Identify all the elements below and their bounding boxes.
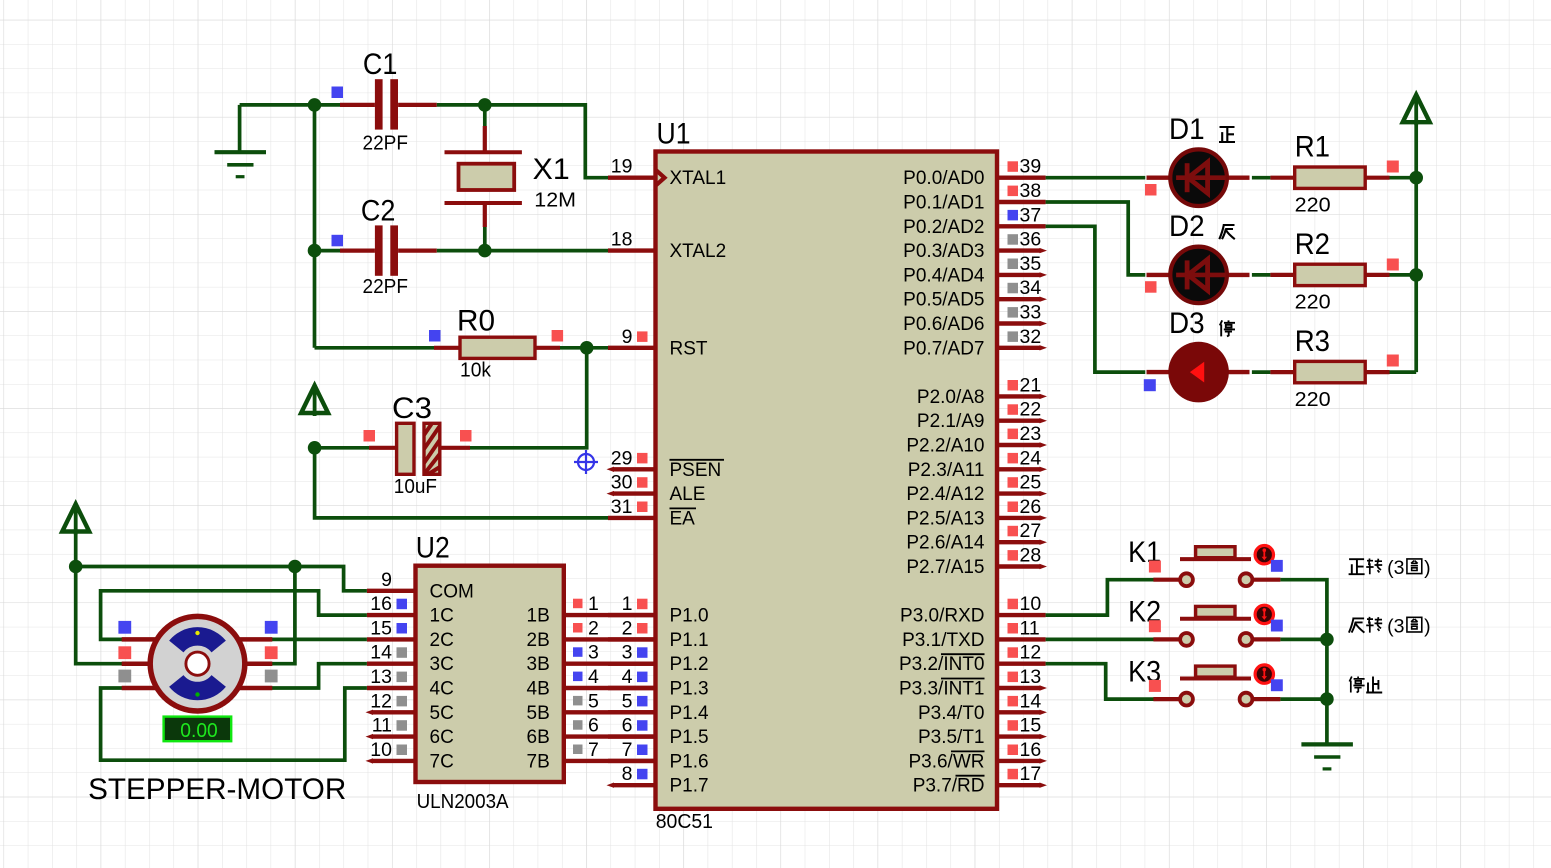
pin P3.5/T1 (15) [918, 715, 1047, 749]
pin 1B (1) of U2 [527, 593, 656, 627]
state square (R3 right) [1387, 355, 1399, 367]
pin P0.2/AD2 (37) [903, 204, 1045, 238]
wire R2 to +V rail [1390, 273, 1417, 277]
pin P1.6 (7) [608, 739, 709, 773]
svg-text:25: 25 [1020, 472, 1042, 494]
svg-text:P1.0: P1.0 [670, 606, 709, 627]
svg-text:35: 35 [1020, 253, 1042, 275]
svg-text:P0.6/AD6: P0.6/AD6 [903, 314, 984, 335]
pin P0.1/AD1 (38) [903, 180, 1045, 214]
pin 4B (4) of U2 [527, 666, 656, 700]
svg-text:5C: 5C [430, 703, 454, 724]
pin P0.6/AD6 (33) [903, 302, 1047, 336]
driver U2 body (ULN2003A) [416, 566, 564, 782]
svg-text:16: 16 [370, 593, 392, 615]
svg-text:220: 220 [1295, 389, 1331, 411]
svg-text:3: 3 [622, 642, 633, 664]
wire +V rail (LED) [1414, 122, 1418, 372]
svg-text:5: 5 [588, 690, 599, 712]
wire +V rail to COM [76, 532, 367, 591]
svg-text:P2.6/A14: P2.6/A14 [906, 533, 985, 554]
state square (motor D left) [118, 670, 131, 683]
pin 3B (3) of U2 [527, 642, 656, 676]
svg-text:39: 39 [1020, 156, 1042, 178]
svg-text:P3.6/WR: P3.6/WR [908, 751, 984, 772]
svg-text:5B: 5B [527, 703, 550, 724]
svg-text:14: 14 [1020, 690, 1042, 712]
svg-text:80C51: 80C51 [656, 811, 713, 833]
svg-text:10: 10 [1020, 593, 1042, 615]
svg-text:21: 21 [1020, 374, 1042, 396]
svg-text:6C: 6C [430, 727, 454, 748]
pin P1.3 (4) [608, 666, 709, 700]
svg-text:P2.3/A11: P2.3/A11 [908, 460, 985, 481]
pin 6B (6) of U2 [527, 715, 656, 749]
label 反 (D2) [1219, 225, 1235, 239]
pin P0.0/AD0 (39) [903, 156, 1045, 190]
svg-text:P0.4/AD4: P0.4/AD4 [903, 265, 985, 286]
svg-text:P2.2/A10: P2.2/A10 [906, 436, 984, 457]
svg-text:13: 13 [1020, 666, 1042, 688]
pin RST (9) [608, 326, 708, 360]
pin P2.0/A8 (21) [917, 374, 1047, 408]
svg-text:4: 4 [622, 666, 633, 688]
power symbol (LED supply) [1414, 99, 1418, 126]
wire D3 to R3 [1252, 370, 1271, 374]
svg-text:P0.2/AD2: P0.2/AD2 [903, 217, 984, 238]
svg-text:P1.4: P1.4 [670, 703, 710, 724]
svg-text:P2.1/A9: P2.1/A9 [917, 411, 985, 432]
svg-text:12: 12 [1020, 642, 1042, 664]
svg-text:22PF: 22PF [363, 133, 409, 155]
wire GND to node A [240, 103, 315, 107]
node H junction (+V mid) [288, 560, 302, 574]
pin P2.2/A10 (23) [906, 423, 1047, 457]
svg-text:P0.3/AD3: P0.3/AD3 [903, 241, 984, 262]
svg-text:5: 5 [622, 690, 633, 712]
pin P0.3/AD3 (36) [903, 229, 1047, 263]
capacitor C2 [340, 225, 437, 275]
svg-text:10uF: 10uF [394, 476, 437, 498]
pin P0.7/AD7 (32) [903, 326, 1047, 360]
origin marker (blue crosshair) [574, 450, 598, 474]
state square (K3 left) [1149, 680, 1161, 692]
node A junction [308, 98, 322, 112]
state square (C3 left) [364, 430, 376, 442]
pin 5B (5) of U2 [527, 690, 656, 724]
switch K1 [1153, 546, 1280, 587]
wire C2 to node D [437, 249, 485, 253]
svg-text:EA: EA [670, 508, 696, 529]
rpm readout display [164, 717, 232, 742]
svg-text:15: 15 [1020, 715, 1042, 737]
pin 3C (14) of U2 [367, 642, 454, 676]
svg-text:7: 7 [588, 739, 599, 761]
node K junction (gnd bus 1) [1320, 633, 1334, 647]
node J junction (rail/R2) [1409, 268, 1423, 282]
wire P0.1 to D2 [1046, 202, 1146, 275]
motor M1 (stepper) [122, 616, 273, 711]
ground (crystal section) [215, 105, 267, 177]
svg-text:13: 13 [370, 666, 392, 688]
svg-text:P2.0/A8: P2.0/A8 [917, 387, 985, 408]
svg-text:9: 9 [381, 569, 392, 591]
svg-text:P1.7: P1.7 [670, 776, 709, 797]
svg-text:P3.0/RXD: P3.0/RXD [900, 606, 984, 627]
state square (motor C right) [265, 670, 278, 683]
wire R1 to +V rail [1390, 176, 1417, 180]
svg-text:36: 36 [1020, 229, 1042, 251]
wire C3 to node F [315, 446, 369, 450]
svg-text:3C: 3C [430, 654, 454, 675]
pin 6C (11) of U2 [366, 715, 454, 749]
wire D1 to R1 [1252, 176, 1271, 180]
wire left vertical to R0 [315, 346, 435, 350]
wire D2 to R2 [1252, 273, 1271, 277]
svg-text:P1.5: P1.5 [670, 727, 709, 748]
svg-text:X1: X1 [533, 153, 570, 186]
svg-text:38: 38 [1020, 180, 1042, 202]
svg-text:P0.0/AD0: P0.0/AD0 [903, 168, 984, 189]
svg-text:ALE: ALE [670, 484, 706, 505]
op U1 body (80C51) [656, 152, 998, 809]
wire node A to C2/R0 (left vertical) [313, 105, 317, 348]
svg-text:3B: 3B [527, 654, 550, 675]
state square (motor B right) [265, 621, 278, 634]
svg-text:6B: 6B [527, 727, 550, 748]
svg-text:10k: 10k [460, 359, 492, 381]
svg-text:2C: 2C [430, 630, 454, 651]
svg-text:23: 23 [1020, 423, 1042, 445]
svg-text:4C: 4C [430, 679, 454, 700]
pin P3.3/INT1 (13) [899, 666, 1047, 700]
svg-text:P3.4/T0: P3.4/T0 [918, 703, 985, 724]
svg-text:7C: 7C [430, 751, 454, 772]
pin P1.1 (2) [608, 617, 709, 651]
pin P1.2 (3) [608, 642, 709, 676]
svg-text:R2: R2 [1295, 228, 1330, 261]
resistor R0 [434, 337, 560, 358]
svg-text:26: 26 [1020, 496, 1042, 518]
state square (D3 anode) [1144, 379, 1156, 391]
svg-text:D2: D2 [1169, 210, 1205, 243]
svg-text:P1.2: P1.2 [670, 654, 709, 675]
switch K3 [1153, 665, 1280, 706]
svg-text:): ) [1424, 557, 1431, 579]
state square (motor A left) [118, 621, 131, 634]
svg-text:P3.5/T1: P3.5/T1 [918, 727, 985, 748]
pin P0.5/AD5 (34) [903, 277, 1047, 311]
pin P3.7/RD (17) [913, 763, 1047, 797]
svg-text:P1.3: P1.3 [670, 679, 709, 700]
wire node D to XTAL2 [485, 249, 608, 253]
caption 反转(3圈) [1349, 616, 1431, 638]
pin P3.0/RXD (10) [900, 593, 1046, 627]
pin EA (31) [608, 496, 696, 530]
svg-text:19: 19 [611, 156, 633, 178]
pin 2C (15) of U2 [367, 617, 454, 651]
wire P3.0 to K1 [1046, 580, 1155, 615]
state square (R1 right) [1387, 161, 1399, 173]
svg-text:): ) [1424, 616, 1431, 638]
pin P2.3/A11 (24) [908, 447, 1047, 481]
svg-text:1: 1 [622, 593, 633, 615]
pin P2.7/A15 (28) [906, 545, 1047, 579]
svg-text:C2: C2 [361, 194, 396, 227]
node D junction [478, 244, 492, 258]
ground (buttons) [1301, 742, 1353, 746]
wire motor B to 2C [270, 638, 367, 642]
led D2 [1147, 247, 1250, 304]
svg-text:34: 34 [1020, 277, 1042, 299]
svg-text:4: 4 [588, 666, 599, 688]
state square (K2 left) [1149, 620, 1161, 632]
svg-text:4B: 4B [527, 679, 550, 700]
pin P1.5 (6) [608, 715, 709, 749]
pin P3.6/WR (16) [908, 739, 1047, 773]
svg-text:STEPPER-MOTOR: STEPPER-MOTOR [88, 773, 346, 806]
svg-text:U1: U1 [657, 117, 691, 150]
pin P2.6/A14 (27) [906, 520, 1047, 554]
svg-text:U2: U2 [416, 531, 450, 564]
wire ground bus [1325, 639, 1329, 744]
wire R3 to +V rail [1390, 370, 1417, 374]
svg-text:16: 16 [1020, 739, 1042, 761]
pin XTAL2 (18) [608, 229, 726, 263]
state square (K1 left) [1149, 561, 1161, 573]
power symbol (motor supply) [74, 508, 78, 535]
pin 1C (16) of U2 [367, 593, 454, 627]
wire motor D to 4C [101, 688, 367, 760]
svg-text:27: 27 [1020, 520, 1042, 542]
pin P3.2/INT0 (12) [899, 642, 1046, 676]
node B junction [478, 98, 492, 112]
wire motor A to 1C [101, 591, 367, 640]
svg-text:ULN2003A: ULN2003A [417, 791, 510, 813]
svg-text:P3.3/INT1: P3.3/INT1 [899, 679, 985, 700]
node E junction (RST) [580, 341, 594, 355]
pin COM (9) of U2 [367, 569, 474, 603]
wire P3.1 to K2 [1046, 638, 1155, 642]
wire P0.2 to D3 [1046, 226, 1146, 372]
svg-text:28: 28 [1020, 545, 1042, 567]
svg-text:RST: RST [670, 338, 708, 359]
svg-text:32: 32 [1020, 326, 1042, 348]
svg-text:D1: D1 [1169, 113, 1205, 146]
pin ALE (30) [607, 472, 706, 506]
led D3 [1147, 342, 1250, 403]
svg-text:7: 7 [622, 739, 633, 761]
wire node C to C2 [315, 249, 341, 253]
state square (R2 right) [1387, 259, 1399, 271]
svg-text:R1: R1 [1295, 131, 1330, 164]
pin 2B (2) of U2 [527, 617, 656, 651]
resistor R1 [1270, 167, 1389, 188]
svg-text:PSEN: PSEN [670, 460, 722, 481]
capacitor C1 [340, 79, 437, 129]
crystal X1 [445, 105, 522, 251]
svg-text:P1.1: P1.1 [670, 630, 709, 651]
svg-text:R0: R0 [457, 304, 495, 337]
wire node H to motor common right [270, 567, 295, 664]
state square (K2 right) [1271, 620, 1283, 632]
svg-text:11: 11 [372, 715, 392, 737]
svg-text:9: 9 [622, 326, 633, 348]
label 正 (D1) [1219, 127, 1235, 142]
svg-text:37: 37 [1020, 204, 1042, 226]
svg-text:33: 33 [1020, 302, 1042, 324]
pin P1.7 (8) [607, 763, 709, 797]
svg-text:P3.7/RD: P3.7/RD [913, 776, 985, 797]
svg-text:C1: C1 [363, 48, 398, 81]
state square (motor com left) [118, 646, 131, 659]
svg-text:1: 1 [588, 593, 599, 615]
svg-text:P2.7/A15: P2.7/A15 [906, 557, 984, 578]
wire node F to EA [315, 448, 608, 518]
node C junction (C2) [308, 244, 322, 258]
svg-text:8: 8 [622, 763, 633, 785]
state square (K3 right) [1271, 679, 1283, 691]
led D1 [1147, 149, 1250, 206]
pin 5C (12) of U2 [366, 690, 454, 724]
state square (R0 right) [552, 330, 564, 342]
caption 正转(3圈) [1349, 557, 1431, 579]
wire K2 to ground bus [1280, 638, 1327, 642]
svg-text:P1.6: P1.6 [670, 751, 709, 772]
svg-text:R3: R3 [1295, 325, 1330, 358]
node I junction (rail/R1) [1409, 171, 1423, 185]
svg-text:2: 2 [622, 617, 633, 639]
svg-text:1C: 1C [430, 606, 454, 627]
svg-text:1B: 1B [527, 606, 550, 627]
svg-text:(3: (3 [1387, 616, 1404, 638]
svg-text:220: 220 [1295, 292, 1331, 314]
svg-text:31: 31 [611, 496, 633, 518]
pin PSEN (29) [607, 447, 725, 481]
svg-text:24: 24 [1020, 447, 1042, 469]
svg-text:7B: 7B [527, 751, 550, 772]
wire node G to motor common left [76, 567, 125, 664]
wire K1 to ground bus [1280, 580, 1327, 640]
svg-text:3: 3 [588, 642, 599, 664]
wire node B to XTAL1 [485, 105, 608, 178]
svg-text:XTAL2: XTAL2 [670, 241, 727, 262]
pin P0.4/AD4 (35) [903, 253, 1047, 287]
svg-text:P2.5/A13: P2.5/A13 [906, 508, 984, 529]
svg-text:11: 11 [1020, 617, 1040, 639]
pin P1.4 (5) [608, 690, 709, 724]
pin P2.4/A12 (25) [906, 472, 1047, 506]
svg-text:15: 15 [370, 617, 392, 639]
svg-text:2B: 2B [527, 630, 550, 651]
svg-text:18: 18 [611, 229, 633, 251]
pin XTAL1 (19) [608, 156, 726, 190]
svg-text:D3: D3 [1169, 307, 1205, 340]
pin P2.5/A13 (26) [906, 496, 1047, 530]
wire motor C to 3C [270, 664, 367, 688]
pin P3.1/TXD (11) [902, 617, 1045, 651]
svg-text:10: 10 [370, 739, 392, 761]
capacitor C3 (electrolytic) [369, 423, 470, 474]
svg-text:14: 14 [370, 642, 392, 664]
state square (C2 left) [332, 235, 344, 247]
svg-text:6: 6 [622, 715, 633, 737]
node L junction (gnd bus 2) [1320, 692, 1334, 706]
wire R0 to RST [560, 346, 608, 350]
resistor R3 [1270, 361, 1389, 382]
svg-text:12M: 12M [534, 190, 576, 212]
resistor R2 [1270, 264, 1389, 285]
wire node E down to C3 net [470, 348, 587, 448]
svg-text:(3: (3 [1387, 557, 1404, 579]
svg-text:P3.1/TXD: P3.1/TXD [902, 630, 984, 651]
pin P2.1/A9 (22) [917, 399, 1047, 433]
pin 7C (10) of U2 [366, 739, 454, 773]
svg-text:P3.2/INT0: P3.2/INT0 [899, 654, 985, 675]
wire K3 to ground bus [1280, 697, 1327, 701]
svg-text:12: 12 [370, 690, 392, 712]
pin P1.0 (1) [608, 593, 709, 627]
node G junction (+V left) [69, 560, 83, 574]
svg-text:0.00: 0.00 [180, 719, 217, 742]
svg-text:P0.5/AD5: P0.5/AD5 [903, 290, 984, 311]
svg-text:2: 2 [588, 617, 599, 639]
state square (R0 left) [429, 330, 441, 342]
state square (C3 right) [460, 430, 472, 442]
svg-text:XTAL1: XTAL1 [670, 168, 727, 189]
pin 7B (7) of U2 [527, 739, 656, 773]
svg-text:P0.7/AD7: P0.7/AD7 [903, 338, 984, 359]
state square (motor com right) [265, 646, 278, 659]
wire P3.2 to K3 [1046, 664, 1155, 699]
node F junction [308, 441, 322, 455]
pin P3.4/T0 (14) [918, 690, 1047, 724]
wire P0.0 to D1 [1046, 176, 1146, 180]
caption 停止 [1349, 677, 1382, 693]
svg-text:30: 30 [611, 472, 633, 494]
wire node A to C1 [315, 103, 341, 107]
state square (C1 left) [332, 87, 344, 99]
svg-text:P0.1/AD1: P0.1/AD1 [903, 193, 984, 214]
state square (D2 anode) [1145, 281, 1157, 293]
svg-text:C3: C3 [392, 392, 432, 425]
state square (D1 anode) [1145, 184, 1157, 196]
svg-text:22PF: 22PF [363, 276, 409, 298]
svg-text:22: 22 [1020, 399, 1042, 421]
svg-text:17: 17 [1020, 763, 1042, 785]
label 停 (D3) [1220, 320, 1235, 336]
svg-text:29: 29 [611, 447, 633, 469]
pin 4C (13) of U2 [367, 666, 454, 700]
svg-text:P2.4/A12: P2.4/A12 [906, 484, 984, 505]
svg-text:6: 6 [588, 715, 599, 737]
switch K2 [1153, 605, 1280, 646]
power symbol (C3) [313, 390, 317, 417]
wire C1 to node B [437, 103, 485, 107]
svg-text:220: 220 [1295, 195, 1331, 217]
state square (K1 right) [1271, 560, 1283, 572]
svg-text:COM: COM [430, 581, 474, 602]
